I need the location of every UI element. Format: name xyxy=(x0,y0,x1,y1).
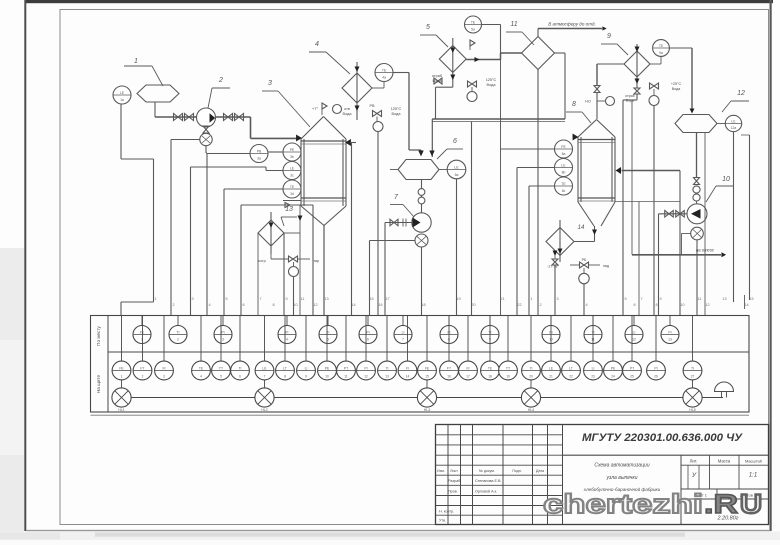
loop branch to panel B xyxy=(471,122,473,316)
svg-text:LE: LE xyxy=(290,166,295,170)
svg-text:HL5: HL5 xyxy=(689,408,695,412)
svg-text:HL1: HL1 xyxy=(118,408,124,412)
heat exchanger 4 (diamond) xyxy=(342,73,372,103)
HX4 cold water inlet flag xyxy=(321,103,323,115)
wire 639 to panel xyxy=(638,202,640,316)
heat exchanger 9 (diamond) xyxy=(624,51,650,77)
svg-text:Орловой А.к.: Орловой А.к. xyxy=(475,489,497,493)
svg-text:№ докум.: № докум. xyxy=(479,469,495,473)
wire motor10 branch xyxy=(682,233,691,235)
svg-text:LE: LE xyxy=(561,163,566,167)
svg-text:LI: LI xyxy=(592,366,595,370)
svg-text:3: 3 xyxy=(268,80,272,87)
pipe through HX4 xyxy=(356,62,358,120)
svg-text:FI: FI xyxy=(406,366,409,370)
svg-text:15: 15 xyxy=(749,297,753,301)
loop control valve xyxy=(434,78,442,84)
svg-text:1: 1 xyxy=(154,297,156,301)
panel board instrument 12 xyxy=(365,316,367,362)
wire motor7 to panel xyxy=(421,247,423,316)
scan bottom page edge xyxy=(26,530,770,531)
svg-text:LT: LT xyxy=(283,366,287,370)
HX14 condensate valve xyxy=(553,251,558,256)
pipe through HX13 xyxy=(270,212,272,254)
svg-text:LE: LE xyxy=(120,91,125,95)
vessel 3 shell xyxy=(300,139,302,206)
pipe through HX14 xyxy=(559,220,561,262)
svg-text:5a: 5a xyxy=(471,27,475,31)
svg-text:Лит.: Лит. xyxy=(690,459,698,464)
svg-text:20: 20 xyxy=(471,303,475,307)
svg-text:12a: 12a xyxy=(731,126,737,130)
svg-text:Изм.: Изм. xyxy=(437,469,445,473)
svg-text:TT: TT xyxy=(219,366,223,370)
wire HX14 valve to panel xyxy=(583,284,585,316)
svg-text:пад: пад xyxy=(603,264,610,268)
svg-text:-17-18°: -17-18° xyxy=(547,265,559,269)
svg-text:+7°: +7° xyxy=(312,106,319,111)
vessel 3 cone top xyxy=(301,117,324,140)
signal lamp HL1 xyxy=(112,388,131,407)
svg-text:6: 6 xyxy=(367,338,369,342)
pump 7 xyxy=(412,213,431,232)
svg-text:PT: PT xyxy=(630,366,634,370)
svg-text:Вода: Вода xyxy=(433,79,443,83)
svg-text:12: 12 xyxy=(705,303,709,307)
wire motor2 to panel xyxy=(205,146,207,153)
svg-text:TE: TE xyxy=(471,20,476,24)
wire mixer left xyxy=(390,169,398,171)
pump10 top valve xyxy=(694,178,700,185)
panel local instrument 12 xyxy=(633,316,635,326)
svg-text:FE: FE xyxy=(425,366,430,370)
scan right page edge line xyxy=(770,0,772,531)
svg-text:FI: FI xyxy=(162,366,165,370)
pipe tank12 to pump10 xyxy=(696,133,698,178)
wire HX13 valve to panel xyxy=(293,277,295,316)
panel board instrument 6 xyxy=(239,316,241,362)
pump 7 motor xyxy=(415,234,428,247)
level transmitter LE-6 xyxy=(447,160,466,179)
svg-text:LE: LE xyxy=(549,366,554,370)
svg-text:PI: PI xyxy=(668,330,671,334)
wire PE-8 to panel xyxy=(501,148,555,150)
panel board instrument 22 xyxy=(570,316,572,362)
panel board instrument 18 xyxy=(489,316,491,362)
wire pump10 suction to panel xyxy=(658,214,660,316)
wire motor10 to panel xyxy=(696,240,698,316)
svg-text:11: 11 xyxy=(344,375,348,379)
panel local instrument 4 xyxy=(286,316,288,326)
svg-text:16: 16 xyxy=(447,375,451,379)
svg-text:6: 6 xyxy=(242,303,244,307)
svg-text:2: 2 xyxy=(539,303,541,307)
svg-text:18: 18 xyxy=(488,375,492,379)
svg-text:2: 2 xyxy=(142,375,144,379)
scan left page edge line xyxy=(24,0,26,531)
svg-text:10: 10 xyxy=(293,303,297,307)
wire LE-3 to panel xyxy=(266,170,283,172)
svg-text:FI: FI xyxy=(285,330,288,334)
svg-text:5: 5 xyxy=(426,24,430,31)
svg-text:Схема автоматизации: Схема автоматизации xyxy=(594,463,649,469)
panel board instrument 4 xyxy=(200,316,202,362)
title block rows xyxy=(436,434,563,436)
mixer inlet arrow 1 xyxy=(418,151,423,157)
svg-text:TI: TI xyxy=(176,330,179,334)
svg-text:LI: LI xyxy=(633,330,636,334)
panel local instrument 11 xyxy=(592,316,594,326)
svg-text:РБ: РБ xyxy=(582,258,587,262)
svg-text:Пров.: Пров. xyxy=(448,489,458,493)
svg-text:3a: 3a xyxy=(257,157,261,161)
panel band row divider xyxy=(108,351,749,353)
vessel 3 left drain stub xyxy=(283,200,301,202)
svg-text:8b: 8b xyxy=(562,171,566,175)
vessel8 feed valve xyxy=(594,86,600,93)
svg-text:6a: 6a xyxy=(455,173,459,177)
svg-text:8: 8 xyxy=(284,375,286,379)
pressure gauge PB-3 xyxy=(250,145,268,163)
panel local instrument 7 xyxy=(402,316,404,326)
wire HX9 drain to panel xyxy=(636,94,638,100)
wire HX13 feed to panel xyxy=(299,233,301,316)
pump 10 xyxy=(687,204,707,224)
svg-text:4: 4 xyxy=(200,375,202,379)
wire HX13 left xyxy=(257,233,259,316)
pump10 valve A xyxy=(665,211,674,218)
vessel 8 outlet pipe xyxy=(594,226,596,242)
level transmitter LB-12 xyxy=(725,115,741,131)
signal lamp HL5 xyxy=(683,388,702,407)
panel board instrument 10 xyxy=(326,316,328,362)
panel board instrument 20 xyxy=(530,316,532,362)
wire vessel3 right to panel xyxy=(350,142,352,144)
svg-text:3d: 3d xyxy=(290,192,294,196)
svg-text:9: 9 xyxy=(285,297,287,301)
pump 7 suction valve xyxy=(390,219,398,226)
panel local instrument 3 xyxy=(222,316,224,326)
vessel 8 bottom screen xyxy=(578,197,615,199)
wire HX13 right to panel xyxy=(283,233,285,316)
svg-text:отв: отв xyxy=(344,107,350,111)
vessel 8 cone top xyxy=(578,120,597,138)
vessel 8 discharge cone xyxy=(578,202,594,226)
pump10 valve B xyxy=(676,211,685,218)
panel board instrument 9 xyxy=(305,316,307,362)
svg-text:Степанова Е.В.: Степанова Е.В. xyxy=(475,479,501,483)
lamp signal line xyxy=(122,397,693,399)
vessel 3 top screen xyxy=(301,140,346,142)
svg-text:HL3: HL3 xyxy=(424,408,430,412)
svg-text:LI: LI xyxy=(305,366,308,370)
pipe vessel8 right level xyxy=(615,201,680,203)
wire pump7 suction to panel xyxy=(384,223,386,316)
loop left drop to mixer xyxy=(431,119,433,157)
svg-text:7: 7 xyxy=(264,375,266,379)
svg-text:отраб: отраб xyxy=(625,94,635,98)
svg-text:У: У xyxy=(691,472,697,479)
HX14 arrow xyxy=(558,249,563,254)
svg-text:3: 3 xyxy=(222,338,224,342)
panel board instrument 15 xyxy=(426,316,428,362)
pump 10 suction line xyxy=(659,213,688,215)
pump 10 motor xyxy=(691,227,704,240)
svg-text:Н. контр.: Н. контр. xyxy=(439,510,454,514)
svg-text:7: 7 xyxy=(259,297,261,301)
svg-text:1: 1 xyxy=(121,375,123,379)
level transmitter LE-3 xyxy=(283,162,301,180)
svg-text:TI: TI xyxy=(529,366,532,370)
panel board instrument 13 xyxy=(386,316,388,362)
svg-text:7: 7 xyxy=(402,338,404,342)
wire TE-4 to mixer xyxy=(393,72,409,74)
pipe mixer to pump7 xyxy=(421,180,423,214)
wire HX11 bottom to panel xyxy=(537,70,539,316)
heat exchanger 13 (diamond) xyxy=(258,220,284,246)
wire HX9 valve to panel xyxy=(653,106,655,316)
svg-text:Лист: Лист xyxy=(450,469,458,473)
flange circle 10b xyxy=(693,194,700,201)
flange circle 7b xyxy=(418,197,425,204)
wire 744 aux xyxy=(744,295,746,309)
wire junction 500 to panel xyxy=(500,53,502,316)
apparatus 11 (diamond) xyxy=(522,37,555,70)
vessel 8 shell xyxy=(577,137,579,202)
mixer inlet arrow 2 xyxy=(429,151,434,157)
svg-text:13: 13 xyxy=(385,375,389,379)
svg-text:PE: PE xyxy=(290,148,295,152)
svg-text:11: 11 xyxy=(698,297,702,301)
svg-text:TE: TE xyxy=(488,366,493,370)
wire LE-8 to panel xyxy=(517,167,555,169)
svg-text:12: 12 xyxy=(364,375,368,379)
svg-text:12: 12 xyxy=(737,90,745,97)
HX13 condensate valve xyxy=(270,254,272,259)
svg-text:Масса: Масса xyxy=(718,459,731,464)
svg-text:22: 22 xyxy=(569,375,573,379)
wire TE-8 to panel xyxy=(529,185,555,187)
svg-text:Вода: Вода xyxy=(392,112,402,116)
svg-text:23: 23 xyxy=(591,375,595,379)
feed sight glass xyxy=(606,97,615,106)
wire LB-12 down xyxy=(733,132,735,302)
svg-text:НО: НО xyxy=(585,100,591,104)
HX13 feed drop xyxy=(299,205,301,233)
panel board instrument 24 xyxy=(612,316,614,362)
pipe tank-1 outlet xyxy=(154,102,156,117)
svg-text:TI: TI xyxy=(691,366,694,370)
svg-text:24: 24 xyxy=(611,375,615,379)
valve V1 xyxy=(174,114,183,121)
wire PE-3 to panel xyxy=(268,151,283,153)
svg-text:11: 11 xyxy=(510,21,517,28)
panel board instrument 3 xyxy=(163,316,165,362)
pipe to vessel8 right xyxy=(622,170,681,172)
wire HX14 left to panel xyxy=(554,265,556,316)
panel board instrument 1 xyxy=(121,316,123,362)
HX9 drain valve xyxy=(634,88,640,94)
svg-text:Вода: Вода xyxy=(672,87,680,91)
panel band label column xyxy=(107,316,109,413)
svg-text:U: U xyxy=(740,489,762,519)
svg-text:6: 6 xyxy=(239,375,241,379)
wire 705 to panel xyxy=(704,133,706,316)
temperature transmitter TE-8 xyxy=(555,177,573,195)
vessel 3 discharge cone xyxy=(301,206,324,226)
pipe HX11 to loop xyxy=(555,52,566,54)
svg-text:FI: FI xyxy=(466,366,469,370)
svg-text:PB: PB xyxy=(257,149,262,153)
svg-text:12: 12 xyxy=(632,338,636,342)
svg-text:16: 16 xyxy=(378,303,382,307)
svg-text:4: 4 xyxy=(286,338,288,342)
pump 2 motor xyxy=(200,133,212,145)
svg-text:3c: 3c xyxy=(290,174,294,178)
pressure transmitter PE-5 xyxy=(465,16,482,33)
svg-text:10: 10 xyxy=(722,176,730,183)
wire LE-1 to panel xyxy=(120,104,122,159)
vessel 3 inlet arrow xyxy=(296,134,302,141)
svg-text:LE: LE xyxy=(262,366,267,370)
pipe pump2 to vessel3 xyxy=(250,117,252,138)
svg-text:LT: LT xyxy=(569,366,573,370)
temperature transmitter TE-3 xyxy=(283,180,301,198)
panel board instrument 25 xyxy=(631,316,633,362)
hot water loop pipe xyxy=(432,118,565,120)
svg-text:17: 17 xyxy=(466,375,470,379)
right section header row xyxy=(681,464,769,466)
wire 632 vertical xyxy=(631,100,633,255)
svg-text:Утв.: Утв. xyxy=(439,519,446,523)
svg-text:TI: TI xyxy=(238,366,241,370)
panel band second bottom line xyxy=(91,414,750,416)
svg-text:2: 2 xyxy=(177,338,179,342)
svg-text:.R: .R xyxy=(704,489,738,519)
panel local instrument 1 xyxy=(141,316,143,326)
svg-text:Масштаб: Масштаб xyxy=(745,459,763,464)
svg-text:3b: 3b xyxy=(290,155,294,159)
svg-text:1: 1 xyxy=(530,297,532,301)
pump 2 xyxy=(197,108,216,127)
svg-text:9: 9 xyxy=(659,297,661,301)
scan top dark edge bar xyxy=(25,0,773,3)
svg-text:2: 2 xyxy=(218,77,223,84)
svg-text:узла выпечки: узла выпечки xyxy=(606,475,638,481)
heat exchanger 5 (diamond) xyxy=(439,46,466,73)
flange circle 10a xyxy=(693,186,700,193)
wire LE-6 to panel xyxy=(456,179,458,316)
svg-text:12: 12 xyxy=(313,303,317,307)
valve V4 xyxy=(235,114,244,121)
svg-text:FT: FT xyxy=(140,366,144,370)
vessel 8 inlet arrow xyxy=(573,133,579,140)
svg-text:МГУТУ 220301.00.636.000 ЧУ: МГУТУ 220301.00.636.000 ЧУ xyxy=(582,432,744,444)
svg-text:8c: 8c xyxy=(562,189,566,193)
panel board instrument 14 xyxy=(407,316,409,362)
svg-text:9: 9 xyxy=(607,33,611,40)
vessel 8 top screen xyxy=(578,139,615,141)
svg-text:19: 19 xyxy=(456,297,460,301)
panel local instrument 6 xyxy=(367,316,369,326)
panel board instrument 19 xyxy=(507,316,509,362)
HX14 valve actuator xyxy=(579,273,589,283)
svg-text:6: 6 xyxy=(453,138,457,145)
panel board instrument 8 xyxy=(284,316,286,362)
discharge line na otsos xyxy=(632,254,721,256)
temperature transmitter TE-9 xyxy=(653,40,670,57)
HX4 control valve actuator xyxy=(373,122,383,132)
svg-text:7: 7 xyxy=(640,297,642,301)
svg-text:PT: PT xyxy=(344,366,348,370)
svg-text:19: 19 xyxy=(506,375,510,379)
valve V2 xyxy=(185,114,194,121)
panel local instrument 9 xyxy=(489,316,491,326)
alarm bell HA1 xyxy=(715,382,734,392)
panel band outline xyxy=(91,316,750,413)
pump 2 seal valve xyxy=(203,126,209,133)
svg-text:13: 13 xyxy=(324,297,328,301)
lit subcells xyxy=(687,465,689,489)
svg-text:26: 26 xyxy=(654,375,658,379)
svg-text:1: 1 xyxy=(134,58,138,65)
vessel8 outlet arrow xyxy=(592,230,597,235)
svg-text:1:1: 1:1 xyxy=(749,473,757,479)
svg-text:PI: PI xyxy=(364,366,367,370)
panel board instrument 16 xyxy=(448,316,450,362)
panel board instrument 7 xyxy=(264,316,266,362)
vapour pipe HX5 to HX11 xyxy=(466,59,500,61)
svg-text:+25°С: +25°С xyxy=(671,82,682,86)
pipe vessel8 to HX14 xyxy=(574,241,595,243)
svg-text:В атмосферу до отд.: В атмосферу до отд. xyxy=(548,22,596,27)
svg-text:10: 10 xyxy=(325,375,329,379)
svg-text:11: 11 xyxy=(301,297,305,301)
svg-text:6: 6 xyxy=(633,303,635,307)
pipe HX9 to vessel8 xyxy=(597,63,624,65)
HX4 outlet arrow xyxy=(355,106,360,111)
HX9 control valve xyxy=(650,83,659,89)
svg-text:21: 21 xyxy=(500,297,504,301)
HX5 arrow top xyxy=(450,48,455,53)
pipe through HX9 xyxy=(636,44,638,88)
svg-text:14: 14 xyxy=(744,303,748,307)
svg-text:PE: PE xyxy=(561,145,566,149)
svg-text:13: 13 xyxy=(722,297,726,301)
wire TE-3 to panel xyxy=(224,188,283,190)
signal lamp HL3 xyxy=(417,388,436,407)
panel board instrument 23 xyxy=(592,316,594,362)
svg-text:FT: FT xyxy=(447,366,451,370)
panel board instrument 5 xyxy=(220,316,222,362)
svg-text:TT: TT xyxy=(506,366,510,370)
svg-text:FE: FE xyxy=(119,366,124,370)
svg-text:LI: LI xyxy=(402,330,405,334)
title block left grid columns xyxy=(447,425,449,525)
HX5 control valve actuator xyxy=(467,92,477,102)
svg-text:TE: TE xyxy=(382,68,387,72)
HX13 valve actuator xyxy=(289,267,299,277)
svg-text:LE: LE xyxy=(454,165,459,169)
svg-text:18: 18 xyxy=(421,303,425,307)
svg-text:TE: TE xyxy=(290,185,295,189)
svg-text:8: 8 xyxy=(572,101,576,108)
HX13 arrow xyxy=(269,223,274,228)
level transmitter LE-8 xyxy=(555,159,573,177)
HX4 inlet arrow xyxy=(355,67,360,72)
panel local instrument 10 xyxy=(550,316,552,326)
level transmitter LE-1 xyxy=(113,86,131,104)
